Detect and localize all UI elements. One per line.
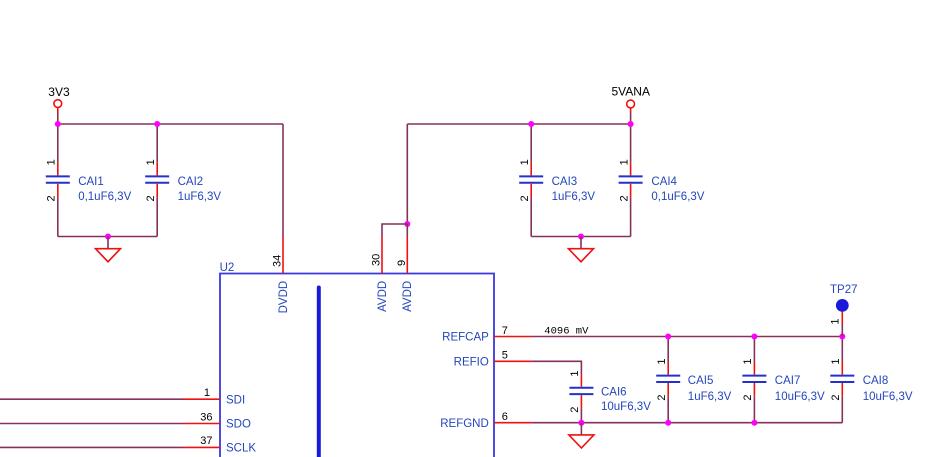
svg-text:SCLK: SCLK — [226, 443, 256, 455]
wire 3V3 terminal drop — [57, 113, 59, 124]
wire 3V3 to CAI1 pin 1 — [57, 124, 59, 163]
pin 37 SCLK — [183, 435, 256, 454]
svg-text:2: 2 — [742, 395, 754, 401]
wire ground stub middle — [580, 237, 582, 249]
svg-text:2: 2 — [46, 195, 58, 201]
svg-text:1: 1 — [830, 318, 842, 324]
svg-text:1: 1 — [519, 159, 531, 165]
power terminal 5VANA — [612, 85, 650, 114]
svg-text:2: 2 — [519, 195, 531, 201]
svg-text:36: 36 — [200, 411, 212, 423]
svg-text:REFIO: REFIO — [454, 357, 489, 369]
capacitor CAI6 — [569, 371, 651, 413]
svg-text:2: 2 — [618, 195, 630, 201]
svg-text:10uF6,3V: 10uF6,3V — [863, 391, 913, 403]
node REFCAP junction at CAI7 — [751, 334, 757, 340]
pin 36 SDO — [183, 411, 251, 430]
node REFCAP junction at CAI8 — [839, 334, 845, 340]
svg-text:0,1uF6,3V: 0,1uF6,3V — [651, 191, 704, 203]
wire 5VANA horizontal rail — [407, 123, 630, 125]
svg-text:34: 34 — [272, 255, 284, 267]
node ground junction left — [105, 234, 111, 240]
svg-text:1: 1 — [569, 371, 581, 377]
wire 5VANA terminal drop — [630, 113, 632, 124]
wire down to AVDD pin 9 — [406, 224, 408, 237]
svg-text:0,1uF6,3V: 0,1uF6,3V — [78, 191, 131, 203]
pin 30 AVDD — [371, 237, 389, 312]
svg-text:U2: U2 — [220, 262, 235, 274]
node REFCAP junction at CAI5 — [665, 334, 671, 340]
svg-text:CAI4: CAI4 — [651, 176, 677, 188]
node AVDD junction — [404, 221, 410, 227]
wire CAI2 pin 2 to ground rail — [156, 198, 158, 237]
svg-text:1: 1 — [46, 159, 58, 165]
wire CAI1 pin 2 to ground rail — [57, 198, 59, 237]
svg-text:2: 2 — [569, 407, 581, 413]
svg-text:CAI5: CAI5 — [688, 375, 714, 387]
wire REFCAP rail — [532, 336, 842, 338]
wire REFGND rail — [532, 422, 842, 424]
pin 7 REFCAP — [442, 325, 532, 344]
svg-text:1uF6,3V: 1uF6,3V — [688, 391, 732, 403]
svg-text:CAI1: CAI1 — [78, 176, 104, 188]
wire CAI3 pin 2 to ground rail — [530, 198, 532, 237]
node 5VANA junction at terminal — [628, 121, 634, 127]
wire jog to AVDD pin 30 — [382, 224, 407, 237]
svg-text:1: 1 — [618, 159, 630, 165]
svg-text:4096 mV: 4096 mV — [544, 325, 589, 337]
node 3V3 junction at CAI2 — [154, 121, 160, 127]
capacitor CAI7 — [742, 337, 825, 423]
ground symbol right — [569, 435, 594, 448]
pin 5 REFIO — [454, 350, 532, 369]
wire ground stub left — [107, 237, 109, 249]
wire ground stub right — [580, 423, 582, 435]
svg-text:1uF6,3V: 1uF6,3V — [552, 191, 596, 203]
svg-text:1: 1 — [742, 358, 754, 364]
power terminal 3V3 — [48, 85, 70, 113]
svg-text:REFGND: REFGND — [440, 418, 489, 430]
svg-text:2: 2 — [656, 395, 668, 401]
node REFGND junction at CAI7 — [751, 420, 757, 426]
svg-text:6: 6 — [502, 411, 508, 423]
wire net to SCLK — [0, 446, 183, 448]
svg-text:5: 5 — [502, 350, 508, 362]
svg-text:1: 1 — [830, 358, 842, 364]
svg-text:CAI7: CAI7 — [775, 375, 801, 387]
wire CAI4 pin 2 to ground rail — [630, 198, 632, 237]
svg-text:REFCAP: REFCAP — [442, 332, 489, 344]
svg-text:AVDD: AVDD — [402, 281, 414, 312]
op-amp U2 IC body — [220, 262, 494, 457]
svg-text:1: 1 — [204, 387, 210, 399]
wire net to SDI — [0, 398, 183, 400]
svg-text:1: 1 — [145, 159, 157, 165]
ground symbol middle — [569, 249, 594, 262]
wire CAI6 pin 2 to REFGND rail — [580, 409, 582, 423]
pin 1 SDI — [183, 387, 245, 406]
node REFGND junction at CAI6 — [578, 420, 584, 426]
svg-text:CAI6: CAI6 — [601, 387, 627, 399]
svg-text:30: 30 — [371, 254, 383, 266]
svg-text:2: 2 — [830, 395, 842, 401]
svg-text:37: 37 — [200, 435, 212, 447]
svg-text:1: 1 — [656, 358, 668, 364]
wire ground rail left — [58, 236, 157, 238]
node ground junction middle — [578, 234, 584, 240]
svg-text:2: 2 — [145, 195, 157, 201]
svg-text:5VANA: 5VANA — [612, 85, 650, 99]
capacitor CAI3 — [519, 159, 595, 203]
svg-text:SDI: SDI — [226, 394, 245, 406]
wire net to SDO — [0, 423, 183, 425]
svg-text:7: 7 — [502, 325, 508, 337]
svg-text:3V3: 3V3 — [48, 85, 70, 99]
capacitor CAI5 — [656, 337, 732, 423]
capacitor CAI2 — [145, 159, 221, 203]
wire 5VANA to CAI4 pin 1 — [630, 124, 632, 163]
capacitor CAI4 — [618, 159, 704, 203]
wire REFIO to CAI6 — [532, 361, 582, 374]
svg-text:AVDD: AVDD — [377, 281, 389, 312]
pin 34 DVDD — [272, 237, 290, 314]
svg-text:10uF6,3V: 10uF6,3V — [775, 391, 825, 403]
svg-text:CAI8: CAI8 — [863, 375, 889, 387]
wire 5VANA down to AVDD junction — [406, 124, 408, 224]
node REFGND junction at CAI5 — [665, 420, 671, 426]
svg-text:TP27: TP27 — [830, 284, 858, 296]
pin 9 AVDD — [396, 237, 414, 312]
pin 6 REFGND — [440, 411, 532, 430]
svg-text:CAI2: CAI2 — [178, 176, 204, 188]
test point TP27 — [830, 284, 858, 324]
svg-text:DVDD: DVDD — [278, 281, 290, 314]
wire 5VANA to CAI3 pin 1 — [530, 124, 532, 163]
wire ground rail middle — [531, 236, 630, 238]
svg-text:10uF6,3V: 10uF6,3V — [601, 401, 651, 413]
node 3V3 junction at terminal — [55, 121, 61, 127]
wire 3V3 to DVDD pin 34 — [282, 124, 284, 237]
svg-text:SDO: SDO — [226, 419, 251, 431]
capacitor CAI8 — [830, 337, 913, 423]
svg-text:9: 9 — [396, 260, 408, 266]
svg-text:CAI3: CAI3 — [552, 176, 578, 188]
wire TP27 to REFCAP rail — [841, 325, 843, 337]
node 5VANA junction at CAI3 — [528, 121, 534, 127]
ground symbol left — [96, 249, 121, 262]
wire 3V3 horizontal rail — [58, 123, 283, 125]
wire 3V3 to CAI2 pin 1 — [156, 124, 158, 163]
svg-text:1uF6,3V: 1uF6,3V — [178, 191, 222, 203]
capacitor CAI1 — [46, 159, 132, 203]
